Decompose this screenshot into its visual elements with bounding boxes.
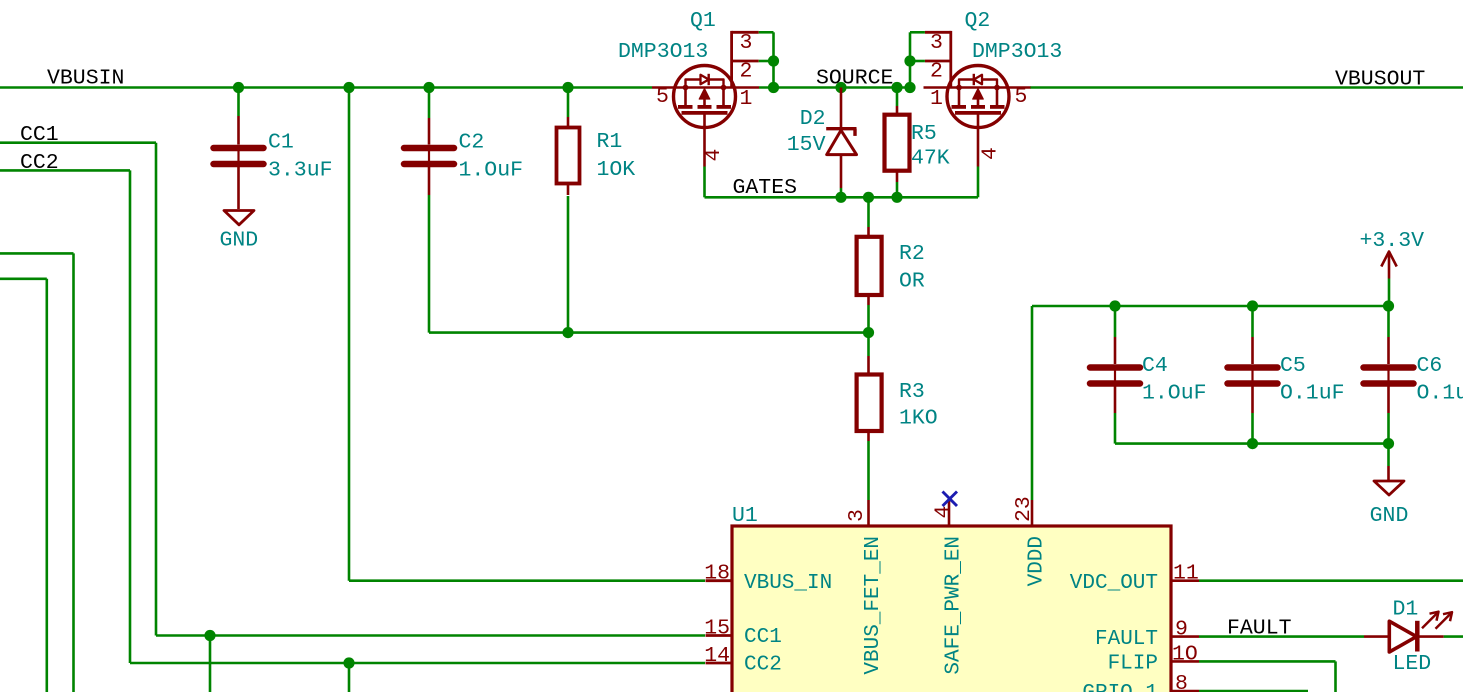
wire +3.3V rail horizontal [1032,305,1389,308]
wire CC2 branch down [348,663,351,692]
wire VDDD vertical to U1 pin 23 [1031,306,1034,500]
value LED [1393,652,1432,676]
value DMP3013 Q1 [618,40,708,64]
value 47K [911,147,950,171]
junction Q2 pin2 tie [904,55,915,66]
svg-text:VBUSOUT: VBUSOUT [1335,68,1425,92]
junction CC2 branch [343,657,354,668]
wire GPIO_1 [1199,690,1308,692]
wire R3 top [867,333,870,356]
label C5 [1280,354,1306,378]
junction +3.3V rail at C4 [1109,300,1120,311]
svg-text:+3.3V: +3.3V [1360,229,1425,253]
junction gate-divider at R1 [562,327,573,338]
wire D2 bottom [840,188,843,197]
pin 23 number U1 [1012,496,1036,522]
svg-text:GND: GND [1370,504,1409,528]
label R1 [597,130,623,154]
pin 15 stub U1 [706,634,733,637]
pin 15 number U1 [704,617,730,641]
pin name VDDD [1026,536,1049,586]
net label GATES [733,176,798,200]
pin 4 stub U1 [948,500,951,526]
junction GND rail at C6 [1383,438,1394,449]
transistor Q1 [652,66,759,167]
label Q2 [965,9,991,33]
svg-text:3.3uF: 3.3uF [268,159,333,183]
pin 1 number Q2 [930,87,943,111]
pin 18 number U1 [704,562,730,586]
wire GND rail horizontal [1115,442,1389,445]
Q2 source pin box [910,31,951,88]
svg-text:3: 3 [930,31,943,55]
transistor Q2 [924,66,1031,167]
svg-text:CC1: CC1 [744,626,782,649]
wire C4 bottom [1114,413,1117,444]
value 1.0uF of C4 [1142,382,1207,406]
label R2 [899,242,925,266]
capacitor C1 [214,116,264,209]
svg-text:R2: R2 [899,242,925,266]
junction on VBUS line at R1 [562,82,573,93]
svg-text:4: 4 [702,149,726,162]
junction GATES at R2 [863,192,874,203]
svg-text:GATES: GATES [733,176,798,200]
pin 4 number Q1 [702,149,726,162]
svg-text:VDC_OUT: VDC_OUT [1070,572,1158,595]
svg-text:1.OuF: 1.OuF [1142,382,1207,406]
wire SBU1 [0,253,74,692]
junction Q1 pin2 tie [768,55,779,66]
svg-text:LED: LED [1393,652,1432,676]
svg-text:FLIP: FLIP [1108,653,1158,676]
value 0.1uF of C6 [1417,382,1463,406]
capacitor C4 [1090,337,1140,413]
value 15V [787,133,826,157]
pin name SAFE_PWR_EN [943,536,966,675]
svg-text:8: 8 [1175,672,1188,692]
svg-text:O.1uF: O.1uF [1280,382,1345,406]
pin 9 number U1 [1175,618,1188,642]
pin 18 stub U1 [706,579,733,582]
svg-text:VBUS_IN: VBUS_IN [744,572,832,595]
value 1.0uF [459,159,524,183]
net label CC1 [20,123,59,147]
wire SOURCE segment Q1-Q2 [759,86,910,89]
capacitor C5 [1228,337,1278,413]
svg-text:15: 15 [704,617,730,641]
label C2 [459,131,485,155]
svg-text:CC2: CC2 [744,654,782,677]
wire C5 top [1251,306,1254,337]
junction +3.3V rail at C6 [1383,300,1394,311]
svg-text:15V: 15V [787,133,826,157]
svg-text:2: 2 [740,60,753,84]
junction on VBUS line at Q2 pins [904,82,915,93]
pin 11 number U1 [1173,562,1199,586]
svg-text:5: 5 [656,85,669,109]
diode D1 LED [1364,612,1452,652]
value 0R [899,269,925,293]
svg-text:3: 3 [845,509,869,522]
junction +3.3V rail at C5 [1247,300,1258,311]
pin name GPIO_1 [1082,682,1158,692]
net label VBUSOUT [1335,68,1425,92]
wire GATES [705,196,979,199]
pin 3 number U1 [845,509,869,522]
wire R5 top [896,88,899,107]
wire CC1 [0,143,705,636]
pin 4 number U1 [932,506,956,519]
wire D1 cathode out [1444,635,1463,638]
svg-text:5: 5 [1015,85,1028,109]
wire R5 bottom [896,182,899,197]
wire C5 bottom [1251,413,1254,444]
pin 3 number Q1 [740,31,753,55]
wire C4 top [1114,306,1117,337]
pin name CC2 [744,654,782,677]
no-connect X on pin 4 [943,492,958,507]
label D2 [800,107,826,131]
pin 5 number Q1 [656,85,669,109]
capacitor C2 [404,118,454,195]
value 3.3uF [268,159,333,183]
value 1K0 [899,407,938,431]
svg-text:1KO: 1KO [899,407,938,431]
junction on VBUS line at Q1 pins [768,82,779,93]
label R3 [899,380,925,404]
junction GND rail at C5 [1247,438,1258,449]
svg-text:C5: C5 [1280,354,1306,378]
label U1 [732,504,758,528]
svg-text:SOURCE: SOURCE [816,66,893,90]
label D1 [1393,598,1419,622]
svg-text:C6: C6 [1417,354,1443,378]
wire R2 bottom [867,305,870,333]
pin 3 number Q2 [930,31,943,55]
diode D2 zener [826,129,856,188]
junction GATES at D2 [835,192,846,203]
wire VBUS_IN vertical [348,88,351,581]
pin 23 stub U1 [1031,500,1034,526]
pin 2 number Q1 [740,60,753,84]
svg-text:R3: R3 [899,380,925,404]
net label FAULT [1227,617,1292,641]
junction GATES at R5 [891,192,902,203]
pin 8 stub U1 [1171,690,1199,692]
wire C2 bottom to gate-divider net [429,195,869,333]
wire VBUSOUT segment [1030,86,1463,89]
pin name CC1 [744,626,782,649]
wire Q2 gate green [977,167,980,198]
svg-text:SAFE_PWR_EN: SAFE_PWR_EN [943,536,966,675]
svg-text:1OK: 1OK [597,158,636,182]
svg-text:2: 2 [930,60,943,84]
pin name VDC_OUT [1070,572,1158,595]
pin 5 number Q2 [1015,85,1028,109]
wire R3 bottom to U1 pin 3 [867,441,870,500]
wire R1 top [567,88,570,118]
resistor R2 [857,227,882,305]
junction CC1 branch [204,630,215,641]
wire C6 bottom [1387,413,1390,444]
svg-text:Q2: Q2 [965,9,991,33]
wire FLIP [1199,661,1336,692]
svg-text:4: 4 [932,506,956,519]
wire SBU2 [0,279,47,692]
svg-text:Q1: Q1 [690,9,716,33]
svg-text:9: 9 [1175,618,1188,642]
svg-text:R5: R5 [911,122,937,146]
value 0.1uF of C5 [1280,382,1345,406]
pin 1 number Q1 [740,87,753,111]
svg-text:C1: C1 [268,131,294,155]
svg-text:O.1uF: O.1uF [1417,382,1463,406]
pin 14 number U1 [704,644,730,668]
svg-text:23: 23 [1012,496,1036,522]
svg-text:C2: C2 [459,131,485,155]
pin 3 stub U1 [867,500,870,526]
junction on VBUS line at VBUS_IN branch [343,82,354,93]
pin name FAULT [1095,628,1158,651]
label GND at C1 [219,229,258,253]
label GND at C6 [1370,504,1409,528]
svg-text:1.OuF: 1.OuF [459,159,524,183]
pin name VBUS_IN [744,572,832,595]
wire +3.3V vertical [1388,279,1391,307]
svg-text:14: 14 [704,644,730,668]
net label CC2 [20,151,59,175]
pin 4 number Q2 [979,147,1003,160]
wire FAULT to D1 [1199,635,1364,638]
svg-text:1: 1 [740,87,753,111]
svg-text:U1: U1 [732,504,758,528]
ground GND at C6 [1374,481,1404,495]
wire CC1 branch down [209,636,212,692]
resistor R5 [885,106,910,182]
label C4 [1142,354,1168,378]
wire R2 top [867,197,870,227]
pin 2 number Q2 [930,60,943,84]
wire C2 top [428,88,431,119]
label Q1 [690,9,716,33]
net label VBUSIN [47,67,124,91]
resistor R1 [557,117,580,195]
pin 10 number U1 [1172,642,1198,666]
svg-text:C4: C4 [1142,354,1168,378]
wire R1 bottom [567,196,570,333]
svg-text:D2: D2 [800,107,826,131]
label R5 [911,122,937,146]
Q1 source pin box [732,31,774,88]
power +3.3V symbol [1360,229,1425,279]
resistor R3 [857,356,882,441]
label C1 [268,131,294,155]
svg-text:18: 18 [704,562,730,586]
IC U1 body [732,526,1171,692]
wire C6 to GND [1387,444,1390,481]
svg-text:R1: R1 [597,130,623,154]
svg-text:GND: GND [219,229,258,253]
svg-text:1O: 1O [1172,642,1198,666]
value DMP3013 Q2 [972,40,1062,64]
svg-text:4: 4 [979,147,1003,160]
svg-text:OR: OR [899,269,925,293]
svg-text:DMP3O13: DMP3O13 [618,40,708,64]
wire VBUS_IN horizontal to U1 pin 18 [349,579,705,582]
wire C6 top [1387,306,1390,337]
ground GND at C1 [224,211,254,225]
label C6 [1417,354,1443,378]
net label SOURCE [816,66,893,90]
junction on VBUS line at C1 [233,82,244,93]
svg-text:47K: 47K [911,147,950,171]
svg-text:DMP3O13: DMP3O13 [972,40,1062,64]
pin 10 stub U1 [1171,660,1199,663]
svg-text:1: 1 [930,87,943,111]
wire C1 top [237,88,240,117]
pin name FLIP [1108,653,1158,676]
svg-text:GPIO_1: GPIO_1 [1082,682,1158,692]
pin 8 number U1 [1175,672,1188,692]
wire CC2 [0,170,705,663]
pin 14 stub U1 [706,662,733,665]
svg-text:VBUSIN: VBUSIN [47,67,124,91]
capacitor C6 [1364,337,1414,413]
junction on VBUS line at R5 [891,82,902,93]
value 10K [597,158,636,182]
svg-text:D1: D1 [1393,598,1419,622]
wire D2 top [840,88,843,129]
wire VDC_OUT [1199,579,1463,582]
junction gate-divider at R2/R3 [863,327,874,338]
svg-text:FAULT: FAULT [1095,628,1158,651]
junction on VBUS line at D2 [835,82,846,93]
svg-text:3: 3 [740,31,753,55]
wire Q1 gate green [703,167,706,198]
svg-text:VDDD: VDDD [1026,536,1049,586]
pin 9 stub U1 [1171,635,1199,638]
junction on VBUS line at C2 [423,82,434,93]
pin 11 stub U1 [1171,579,1199,582]
svg-text:11: 11 [1173,562,1199,586]
svg-text:VBUS_FET_EN: VBUS_FET_EN [862,536,885,675]
pin name VBUS_FET_EN [862,536,885,675]
wire VBUSIN segment [0,86,652,89]
